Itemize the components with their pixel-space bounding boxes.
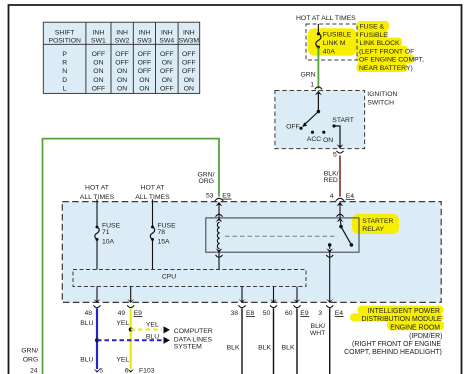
svg-text:SHIFT: SHIFT (55, 30, 75, 37)
svg-text:INH: INH (116, 30, 128, 37)
connector at pin 3 E4 (326, 299, 333, 303)
svg-text:E4: E4 (335, 310, 344, 317)
svg-text:OFF: OFF (138, 68, 152, 75)
wire BLU pin 48 (96, 308, 98, 369)
svg-text:SW4: SW4 (159, 38, 174, 45)
relay contact arm (340, 221, 343, 227)
connector at ignition pin 1 (315, 87, 322, 89)
svg-text:BLK: BLK (282, 345, 295, 352)
ignition switch box (275, 91, 365, 149)
svg-text:POSITION: POSITION (48, 38, 81, 45)
svg-text:FUSE &: FUSE & (360, 24, 385, 31)
svg-text:ON: ON (93, 60, 103, 67)
wire relay coil to CPU (218, 252, 220, 269)
svg-text:INH: INH (93, 30, 105, 37)
svg-text:4: 4 (330, 193, 334, 200)
wire BLK/WHT pin 3 (329, 308, 331, 374)
svg-text:OFF: OFF (138, 60, 152, 67)
wire BLK pin 50 (273, 308, 275, 374)
svg-text:F103: F103 (139, 367, 155, 374)
svg-text:1: 1 (310, 81, 314, 88)
svg-text:FUSIBLE: FUSIBLE (323, 31, 352, 38)
wire YEL pin 49 (130, 308, 132, 369)
svg-text:OFF: OFF (92, 51, 106, 58)
dashed BLU branch to data line (97, 339, 162, 341)
arrow to computer data lines (blue) (164, 337, 171, 344)
contact START (332, 124, 335, 127)
wire BLK pin 38 (241, 308, 243, 374)
ignition switch arm (305, 112, 319, 125)
connector at relay contact top (337, 214, 344, 216)
svg-text:OFF: OFF (92, 86, 106, 93)
svg-text:ACC: ACC (307, 136, 321, 143)
svg-text:ON: ON (93, 77, 103, 84)
connector at IPDM pin 4 (336, 198, 344, 201)
table column lines (86, 23, 178, 94)
wire CPU to pin 60 (296, 287, 298, 303)
svg-text:OFF: OFF (182, 60, 196, 67)
dashed YEL branch to data line (131, 329, 162, 331)
svg-text:3: 3 (318, 310, 322, 317)
table box (43, 22, 199, 93)
junction on YEL wire (129, 328, 133, 332)
svg-text:ON: ON (117, 77, 127, 84)
wire GRN/ORG main run (43, 139, 220, 374)
junction on BLU wire (95, 338, 99, 342)
wire pin 4 to relay contact (339, 203, 341, 218)
svg-text:N: N (62, 68, 67, 75)
svg-text:E9: E9 (134, 310, 143, 317)
svg-text:ON: ON (323, 137, 333, 144)
wire CPU to pin 38 (241, 287, 243, 303)
svg-text:INH: INH (161, 30, 173, 37)
svg-text:SW3M: SW3M (179, 38, 200, 45)
svg-text:FUSIBLE: FUSIBLE (360, 32, 389, 39)
svg-text:P: P (62, 51, 67, 58)
wire CPU to pin 48 (96, 287, 98, 303)
svg-text:BLU: BLU (146, 334, 159, 341)
svg-text:(RIGHT FRONT OF ENGINE: (RIGHT FRONT OF ENGINE (352, 341, 441, 348)
svg-text:ORG: ORG (23, 357, 38, 364)
highlight fuse block annotation (357, 21, 390, 31)
svg-text:D: D (62, 77, 67, 84)
svg-text:IGNITION: IGNITION (367, 91, 397, 98)
svg-text:24: 24 (30, 368, 38, 374)
wire BLK/RED (339, 156, 341, 197)
svg-text:COMPUTER: COMPUTER (174, 328, 213, 335)
svg-text:ORG: ORG (199, 178, 214, 185)
svg-text:OFF: OFF (182, 68, 196, 75)
connector at IPDM pin 53 (215, 198, 223, 201)
highlight starter relay (352, 214, 399, 234)
svg-text:ON: ON (162, 60, 172, 67)
svg-text:48: 48 (84, 310, 92, 317)
svg-text:40A: 40A (323, 48, 336, 55)
wire BLK pin 60 (296, 308, 298, 374)
connector F103 pin 6 (127, 369, 134, 373)
svg-text:ON: ON (139, 77, 149, 84)
connector at relay coil bottom (216, 248, 223, 252)
svg-text:38: 38 (230, 310, 238, 317)
svg-text:49: 49 (118, 310, 126, 317)
svg-text:78: 78 (158, 229, 166, 236)
svg-text:BLU: BLU (80, 320, 93, 327)
relay mechanical link (225, 235, 336, 237)
svg-text:LINK BLOCK: LINK BLOCK (360, 40, 401, 47)
contact ACC (311, 131, 314, 134)
svg-text:OFF: OFF (160, 68, 174, 75)
svg-text:RED: RED (323, 177, 337, 184)
table header separator (44, 43, 200, 45)
svg-text:YEL: YEL (116, 320, 129, 327)
svg-text:E9: E9 (300, 310, 309, 317)
svg-text:YEL: YEL (146, 321, 159, 328)
svg-text:SW1: SW1 (91, 38, 106, 45)
connector at pin 49 E9 (127, 299, 134, 303)
svg-text:5: 5 (333, 151, 337, 158)
svg-text:ON: ON (117, 68, 127, 75)
connector at ignition pin 5 (337, 144, 344, 148)
relay coil (217, 222, 219, 249)
svg-text:GRN/: GRN/ (21, 347, 38, 354)
contact ON (322, 131, 325, 134)
highlight fusible link text (308, 28, 358, 56)
svg-text:E9: E9 (222, 193, 231, 200)
svg-text:INTELLIGENT POWER: INTELLIGENT POWER (368, 308, 440, 315)
connector F103 pin 5 (94, 369, 101, 373)
svg-text:BLK: BLK (258, 345, 271, 352)
svg-text:OFF: OFF (115, 51, 129, 58)
svg-text:OFF: OFF (182, 51, 196, 58)
annotation IPDM location (344, 308, 442, 356)
svg-text:INH: INH (139, 30, 151, 37)
fusible link M element (316, 32, 321, 49)
svg-text:LINK M: LINK M (323, 40, 346, 47)
wire START to pin 5 (334, 126, 340, 148)
svg-text:E4: E4 (346, 193, 355, 200)
wire into fusible link (317, 24, 319, 34)
wire CPU to pin 50 (273, 287, 275, 303)
svg-text:10A: 10A (102, 238, 115, 245)
IPDM box (62, 202, 441, 303)
wire fuse 71 (96, 199, 98, 227)
svg-text:HOT AT: HOT AT (141, 185, 165, 192)
fusible link M box (306, 24, 357, 60)
table header text (48, 30, 199, 45)
connector at pin 38 E8 (239, 299, 246, 303)
CPU box (73, 270, 306, 287)
svg-text:ON: ON (184, 86, 194, 93)
wire relay to pin 3 (329, 252, 331, 302)
svg-text:SWITCH: SWITCH (367, 100, 394, 107)
highlight IPDM annotation (358, 306, 444, 314)
ignition switch pivot (317, 110, 321, 114)
svg-text:ON: ON (117, 86, 127, 93)
svg-text:RELAY: RELAY (362, 226, 384, 233)
svg-text:E8: E8 (246, 310, 255, 317)
starter relay box (206, 218, 359, 252)
svg-text:DISTRIBUTION MODULE: DISTRIBUTION MODULE (361, 316, 441, 323)
svg-text:NEAR BATTERY): NEAR BATTERY) (359, 65, 413, 72)
svg-text:COMPT, BEHIND HEADLIGHT): COMPT, BEHIND HEADLIGHT) (344, 349, 442, 356)
svg-text:STARTER: STARTER (362, 218, 393, 225)
table body text (62, 51, 195, 93)
ignition switch common wire (317, 93, 319, 112)
svg-text:START: START (332, 117, 354, 124)
wire CPU to pin 49 (130, 287, 132, 303)
contact OFF (299, 127, 302, 130)
svg-text:71: 71 (102, 229, 110, 236)
wire GRN fusible link to ignition switch (317, 47, 319, 88)
wire pin 53 to relay coil (218, 203, 220, 218)
svg-text:R: R (62, 60, 67, 67)
svg-text:ON: ON (139, 86, 149, 93)
svg-text:ON: ON (93, 68, 103, 75)
svg-text:HOT AT: HOT AT (85, 185, 109, 192)
svg-text:BLU: BLU (80, 356, 93, 363)
svg-text:60: 60 (285, 310, 293, 317)
svg-text:SW2: SW2 (115, 38, 130, 45)
svg-text:6: 6 (125, 367, 129, 374)
svg-text:ON: ON (184, 77, 194, 84)
svg-text:OFF: OFF (115, 60, 129, 67)
connector at relay coil top (216, 214, 223, 216)
svg-text:50: 50 (263, 310, 271, 317)
svg-text:SYSTEM: SYSTEM (174, 343, 202, 350)
svg-text:WHT: WHT (310, 330, 325, 337)
svg-text:(IPDM/ER): (IPDM/ER) (409, 333, 442, 340)
svg-text:OFF: OFF (160, 86, 174, 93)
svg-text:SW3: SW3 (137, 38, 152, 45)
fuse 71 (95, 226, 99, 241)
annotation fuse block location (359, 24, 424, 72)
svg-text:15A: 15A (158, 238, 171, 245)
svg-text:BLK: BLK (227, 345, 240, 352)
connector at relay contact bottom (326, 248, 333, 252)
svg-text:(LEFT FRONT OF: (LEFT FRONT OF (359, 49, 414, 56)
svg-text:OF ENGINE COMPT,: OF ENGINE COMPT, (359, 57, 424, 64)
relay stationary contact (328, 243, 332, 247)
svg-text:ENGINE ROOM: ENGINE ROOM (390, 325, 440, 332)
svg-text:YEL: YEL (116, 356, 129, 363)
svg-text:OFF: OFF (160, 51, 174, 58)
svg-text:5: 5 (99, 367, 103, 374)
svg-text:ON: ON (162, 77, 172, 84)
svg-text:GRN: GRN (301, 72, 316, 79)
wire fuse 78 (152, 199, 154, 227)
svg-text:HOT AT ALL TIMES: HOT AT ALL TIMES (296, 15, 356, 22)
arrow to computer data lines (yellow) (164, 326, 171, 333)
connector at pin 48 (94, 299, 101, 303)
svg-text:L: L (63, 86, 67, 93)
svg-text:OFF: OFF (138, 51, 152, 58)
fuse 78 (150, 226, 154, 241)
shift position table (43, 22, 199, 93)
connector at pin 60 E9 (294, 299, 301, 303)
svg-text:53: 53 (206, 193, 214, 200)
svg-text:CPU: CPU (162, 273, 176, 280)
svg-text:INH: INH (183, 30, 195, 37)
svg-text:OFF: OFF (286, 124, 300, 131)
connector at pin 50 (270, 299, 277, 303)
